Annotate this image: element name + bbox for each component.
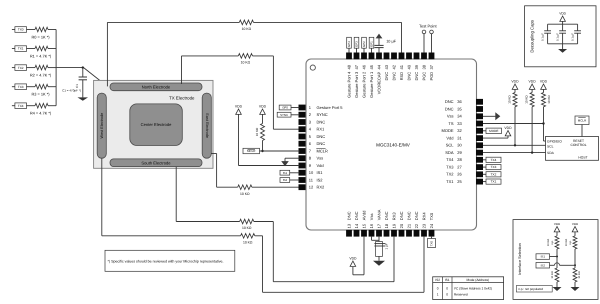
- pin 47 Gesture Port 3 (top): [354, 53, 360, 60]
- svg-text:IS1: IS1: [317, 170, 324, 175]
- svg-text:TX3: TX3: [446, 165, 454, 170]
- svg-text:38: 38: [421, 64, 426, 69]
- wire TS pin 33 to host GPIO: [483, 123, 544, 125]
- pin 13 DNC (bottom): [346, 230, 352, 237]
- resistor R1: [35, 46, 48, 51]
- pin 10 IS1 (left): [299, 170, 306, 176]
- svg-text:CONTROL: CONTROL: [570, 143, 586, 147]
- svg-text:RXD: RXD: [399, 72, 404, 81]
- svg-text:MODE: MODE: [442, 128, 454, 133]
- wire IS2 with hop over IS1 line: [550, 264, 555, 266]
- net flag IS2 (interface sel): [536, 263, 550, 269]
- wire RX1 pin4 to North Electrode: [273, 128, 299, 130]
- wire South Electrode to RX3 pin19: [175, 167, 177, 222]
- svg-text:18: 18: [384, 223, 389, 228]
- net flag TX0 pin 24: [431, 237, 433, 239]
- Vdd to AVdd pin 15: [363, 237, 365, 275]
- pin 44 VCORECAP (top): [376, 53, 382, 60]
- Vdd symbol decoupling: [560, 16, 566, 21]
- svg-text:28: 28: [457, 157, 462, 162]
- pin 33 TS (right): [476, 121, 483, 127]
- wire SCL pin 30 to host: [483, 144, 546, 146]
- svg-text:TX0: TX0: [18, 28, 24, 32]
- pullup n.p. 10K for IS2: [572, 227, 578, 232]
- TX2 net flag: [12, 67, 15, 69]
- pin 22 DNC (bottom): [414, 230, 420, 237]
- svg-text:47: 47: [354, 64, 359, 69]
- svg-text:VDD: VDD: [504, 126, 512, 130]
- svg-text:Vdd: Vdd: [446, 136, 453, 141]
- svg-text:DNC: DNC: [317, 141, 326, 146]
- svg-text:39: 39: [414, 64, 419, 69]
- ground VANA: [378, 256, 380, 260]
- West Electrode: [97, 93, 106, 158]
- net flag SYNC pin2: [291, 114, 300, 116]
- svg-text:43: 43: [384, 64, 389, 69]
- pin 1 marker circle: [310, 65, 315, 70]
- svg-text:34: 34: [457, 114, 462, 119]
- I2C mode table: [433, 277, 504, 300]
- pin 28 TX4 (right): [476, 157, 483, 163]
- svg-text:IS1: IS1: [283, 171, 288, 175]
- svg-text:VDD: VDD: [540, 79, 548, 83]
- svg-text:46: 46: [361, 64, 366, 69]
- net flag IS1 pin10: [290, 172, 300, 174]
- pin 5 DNC (left): [299, 134, 306, 140]
- svg-text:C1: C1: [75, 84, 79, 88]
- pin 12 RX2 (left): [299, 184, 306, 190]
- svg-text:IS1: IS1: [445, 278, 450, 282]
- gesture port flag GP3: [356, 48, 358, 52]
- IC U1 MGC3140-E/MV outline: [306, 59, 477, 230]
- svg-text:Center Electrode: Center Electrode: [141, 122, 172, 127]
- svg-text:14: 14: [354, 223, 359, 228]
- svg-text:44: 44: [376, 64, 381, 69]
- svg-text:RX2: RX2: [317, 185, 326, 190]
- svg-text:10 KΩ: 10 KΩ: [241, 61, 251, 65]
- svg-text:HOST: HOST: [578, 155, 587, 159]
- svg-text:C1 = 470pF *): C1 = 470pF *): [62, 89, 81, 93]
- svg-text:IS2: IS2: [435, 278, 440, 282]
- capacitor C1: [82, 68, 84, 77]
- pin 35 DNC (right): [476, 106, 483, 112]
- svg-text:41: 41: [399, 64, 404, 69]
- pin 11 IS2 (left): [299, 177, 306, 183]
- svg-text:10 KΩ: 10 KΩ: [565, 239, 568, 246]
- TX0 net flag: [12, 29, 15, 31]
- decoupling capacitor 0.1uF: [562, 24, 564, 31]
- svg-text:MGC3140-E/MV: MGC3140-E/MV: [376, 142, 411, 147]
- wire MCLR to reset control: [581, 125, 583, 137]
- svg-text:10 KΩ: 10 KΩ: [242, 27, 252, 31]
- svg-text:29: 29: [457, 150, 462, 155]
- svg-text:Vss: Vss: [369, 214, 374, 221]
- pin 3 DNC (left): [299, 119, 306, 125]
- svg-text:DNC: DNC: [445, 99, 454, 104]
- wire SDA pin 29 to host: [483, 152, 546, 154]
- svg-text:32: 32: [457, 128, 462, 133]
- pin 1 Gesture Port 5 (left): [299, 105, 306, 111]
- svg-text:10 KΩ: 10 KΩ: [547, 239, 550, 246]
- gesture port flag GP2: [363, 48, 365, 52]
- svg-text:MCLR: MCLR: [578, 118, 587, 122]
- svg-text:10 KΩ: 10 KΩ: [243, 240, 253, 244]
- ground IS1: [553, 287, 562, 291]
- net flag IS1 (interface sel): [536, 254, 550, 259]
- svg-text:DNC: DNC: [317, 134, 326, 139]
- South Electrode: [110, 159, 202, 167]
- svg-text:Gesture Port 1: Gesture Port 1: [369, 71, 374, 98]
- wire TX2 row to pad: [56, 67, 84, 69]
- Vdd symbol and 10K pullup for MCLR pin 7: [260, 109, 266, 114]
- svg-text:GPIO/EIO: GPIO/EIO: [547, 139, 562, 143]
- svg-text:20: 20: [399, 223, 404, 228]
- pin 27 TX3 (right): [476, 164, 483, 170]
- interface selection box: [513, 220, 598, 300]
- wire Vss pin 16: [371, 237, 373, 241]
- svg-text:TS: TS: [448, 121, 453, 126]
- pin 34 Vss (right): [476, 113, 483, 119]
- net flag IS2 pin11: [290, 179, 300, 181]
- Center Electrode: [130, 104, 183, 146]
- svg-text:MCLR: MCLR: [317, 148, 328, 153]
- decoupling rails: [548, 23, 578, 25]
- svg-text:10 KΩ: 10 KΩ: [242, 226, 252, 230]
- svg-text:DNC: DNC: [406, 72, 411, 81]
- wire TX1 to R1: [27, 48, 36, 50]
- decoupling capacitor 0.1uF: [577, 24, 579, 31]
- svg-text:DNC: DNC: [384, 211, 389, 220]
- svg-text:45: 45: [369, 64, 374, 69]
- svg-text:R4 = 4.7K *): R4 = 4.7K *): [30, 111, 52, 116]
- resistor 10K on RX3 wire: [240, 219, 254, 224]
- Vdd pullup resistor 10K: [529, 84, 535, 89]
- pin 45 Gesture Port 1 (top): [369, 53, 375, 60]
- svg-text:Test Point: Test Point: [419, 24, 437, 29]
- svg-text:1 µF: 1 µF: [384, 243, 388, 249]
- n.p. legend box: [516, 286, 552, 293]
- resistor 10K on RX1 wire: [238, 54, 252, 59]
- svg-text:TX2: TX2: [446, 172, 454, 177]
- svg-text:SCL: SCL: [446, 143, 455, 148]
- gesture port flag GP4: [348, 48, 350, 52]
- svg-text:36: 36: [457, 99, 462, 104]
- pin 38 PGC (top): [421, 53, 427, 60]
- svg-text:n.p.: n.p.: [569, 240, 572, 245]
- svg-text:17: 17: [376, 223, 381, 228]
- resistor 10K on RX2 wire: [238, 185, 252, 190]
- svg-text:26: 26: [457, 172, 462, 177]
- svg-text:Vss: Vss: [317, 156, 324, 161]
- capacitor 10uF on VCORECAP pin 44: [378, 48, 380, 53]
- svg-text:SDA: SDA: [547, 151, 555, 155]
- net flag MCLR left: [243, 148, 260, 153]
- junction IS2: [574, 264, 576, 266]
- svg-text:DNC: DNC: [399, 211, 404, 220]
- pin 7 MCLR (left): [299, 148, 306, 154]
- svg-text:SYNC: SYNC: [317, 112, 328, 117]
- pin 17 VANA (bottom): [376, 230, 382, 237]
- svg-text:TX1: TX1: [446, 179, 454, 184]
- svg-text:10 KΩ: 10 KΩ: [524, 95, 528, 104]
- Vss arrow pin 34: [483, 115, 496, 117]
- svg-text:IS2: IS2: [541, 263, 546, 267]
- svg-text:Interface Selection: Interface Selection: [518, 243, 522, 274]
- junction IS1: [556, 256, 558, 258]
- pin 2 SYNC (left): [299, 112, 306, 118]
- svg-text:TX2: TX2: [18, 66, 24, 70]
- net flag MODE pin 32: [483, 130, 486, 132]
- svg-text:33: 33: [457, 121, 462, 126]
- Vss arrow pin 8: [285, 157, 300, 159]
- pin 6 DNC (left): [299, 141, 306, 147]
- svg-text:Mode (Address): Mode (Address): [466, 278, 489, 282]
- wire TX2 to R2: [27, 67, 36, 69]
- svg-text:VDD: VDD: [572, 222, 579, 226]
- svg-text:VDD: VDD: [235, 104, 243, 108]
- pin 31 Vdd (right): [476, 135, 483, 141]
- wire TX0 to R0: [27, 29, 36, 31]
- ground for C1: [78, 97, 89, 100]
- resistor 10K on RX4 wire: [241, 234, 255, 239]
- TX1 net flag: [12, 48, 15, 50]
- svg-text:DNC: DNC: [414, 72, 419, 81]
- svg-text:Gesture Port 3: Gesture Port 3: [354, 71, 359, 98]
- pin 30 SCL (right): [476, 142, 483, 148]
- svg-text:10 KΩ: 10 KΩ: [551, 271, 554, 278]
- svg-text:48: 48: [346, 64, 351, 69]
- svg-text:22: 22: [414, 223, 419, 228]
- svg-text:IS2: IS2: [317, 177, 324, 182]
- svg-text:RX3: RX3: [391, 212, 396, 221]
- svg-text:R2 = 4.7K *): R2 = 4.7K *): [30, 73, 52, 78]
- pin 21 DNC (bottom): [406, 230, 412, 237]
- svg-text:GP3: GP3: [355, 41, 359, 47]
- svg-text:12: 12: [309, 185, 314, 190]
- svg-text:25: 25: [457, 179, 462, 184]
- svg-text:DNC: DNC: [384, 72, 389, 81]
- svg-text:GP1: GP1: [370, 41, 374, 47]
- capacitor 1uF on VANA pin 17: [378, 237, 380, 242]
- svg-text:10 KΩ: 10 KΩ: [547, 95, 551, 104]
- svg-text:10 KΩ: 10 KΩ: [578, 271, 581, 278]
- svg-text:TX0: TX0: [430, 241, 434, 247]
- pin 39 DNC (top): [414, 53, 420, 60]
- svg-text:TX1: TX1: [491, 180, 497, 184]
- svg-text:PGD: PGD: [429, 72, 434, 81]
- svg-text:DNC: DNC: [406, 211, 411, 220]
- svg-text:AVdd: AVdd: [361, 211, 366, 221]
- pin 23 RX4 (bottom): [421, 230, 427, 237]
- svg-text:VDD: VDD: [529, 79, 537, 83]
- svg-text:MODE: MODE: [489, 129, 498, 133]
- svg-text:0: 0: [446, 286, 448, 290]
- svg-text:40: 40: [406, 64, 411, 69]
- pin 32 MODE (right): [476, 128, 483, 134]
- pin 43 DNC (top): [384, 53, 390, 60]
- svg-text:R1 = 4.7K *): R1 = 4.7K *): [30, 54, 52, 59]
- TX3 net flag: [12, 86, 15, 88]
- junction C1 tap: [82, 66, 84, 68]
- pin 18 DNC (bottom): [384, 230, 390, 237]
- svg-text:I²C (Slave Address 1 0x42): I²C (Slave Address 1 0x42): [454, 286, 492, 290]
- junction MCLR pullup: [261, 150, 263, 152]
- svg-text:42: 42: [391, 64, 396, 69]
- decoupling capacitor 0.1uF: [547, 24, 549, 31]
- svg-text:13: 13: [346, 223, 351, 228]
- Vdd symbol for pin 9: [236, 109, 242, 114]
- svg-text:TX1: TX1: [18, 47, 24, 51]
- junction SDA pullup: [531, 151, 533, 153]
- svg-text:0.1 µF: 0.1 µF: [555, 33, 559, 41]
- svg-text:Vss: Vss: [447, 114, 454, 119]
- svg-text:East Electrode: East Electrode: [205, 113, 209, 138]
- svg-text:21: 21: [406, 223, 411, 228]
- svg-text:IS2: IS2: [283, 178, 288, 182]
- ground decoupling: [562, 44, 564, 49]
- svg-text:10 KΩ: 10 KΩ: [240, 192, 250, 196]
- wire diagonal TX to Center Electrode: [84, 68, 131, 105]
- svg-text:North Electrode: North Electrode: [142, 85, 171, 90]
- svg-text:16: 16: [369, 223, 374, 228]
- svg-text:TX2: TX2: [491, 173, 497, 177]
- svg-text:10 µF: 10 µF: [386, 40, 396, 44]
- svg-text:TX Electrode: TX Electrode: [169, 96, 195, 101]
- svg-text:TX4: TX4: [491, 158, 497, 162]
- TX bus wire: [55, 30, 57, 106]
- pin 19 RX3 (bottom): [391, 230, 397, 237]
- svg-text:27: 27: [457, 165, 462, 170]
- resistor R4: [35, 103, 48, 108]
- pin 16 Vss (bottom): [369, 230, 375, 237]
- svg-text:Gesture Port 2: Gesture Port 2: [361, 71, 366, 98]
- pin 40 DNC (top): [406, 53, 412, 60]
- svg-text:SDA: SDA: [445, 150, 454, 155]
- svg-text:DNC: DNC: [414, 211, 419, 220]
- svg-text:1: 1: [437, 293, 439, 297]
- svg-text:R3 = 1K *): R3 = 1K *): [31, 92, 50, 97]
- electrode pad outline: [94, 80, 213, 168]
- svg-text:30: 30: [457, 143, 462, 148]
- svg-text:10: 10: [309, 170, 314, 175]
- pin 42 DNC (top): [391, 53, 397, 60]
- wire TX3 to R3: [27, 86, 36, 88]
- svg-text:GP4: GP4: [347, 41, 351, 47]
- pin 24 TX0 (bottom): [429, 230, 435, 237]
- pin 48 Gesture Port 4 (top): [346, 53, 352, 60]
- resistor R0: [35, 27, 48, 32]
- svg-text:Vdd: Vdd: [317, 163, 324, 168]
- resistor R2: [35, 65, 48, 70]
- pin 41 RXD (top): [399, 53, 405, 60]
- pin 29 SDA (right): [476, 150, 483, 156]
- pin 20 DNC (bottom): [399, 230, 405, 237]
- svg-text:VDD: VDD: [259, 104, 267, 108]
- svg-text:TX4: TX4: [18, 104, 24, 108]
- junction SCL pullup: [514, 144, 516, 146]
- svg-text:TX4: TX4: [446, 157, 454, 162]
- svg-text:0: 0: [437, 286, 439, 290]
- wire TX4 to R4: [27, 105, 36, 107]
- pulldown 10K for IS1: [556, 257, 558, 269]
- svg-text:Gesture Port 4: Gesture Port 4: [346, 71, 351, 98]
- svg-text:R0 = 1K *): R0 = 1K *): [31, 35, 50, 40]
- svg-text:GP5: GP5: [282, 106, 288, 110]
- svg-text:TX3: TX3: [18, 85, 24, 89]
- pin 14 DNC (bottom): [354, 230, 360, 237]
- resistor R3: [35, 84, 48, 89]
- svg-text:*) Specific values should be r: *) Specific values should be reviewed wi…: [108, 259, 224, 263]
- svg-text:DNC: DNC: [346, 211, 351, 220]
- pin 25 TX1 (right): [476, 179, 483, 185]
- HOST box: [546, 137, 599, 161]
- East Electrode: [202, 93, 211, 158]
- svg-text:Gesture Port 5: Gesture Port 5: [317, 105, 344, 110]
- net flag MCLR right: [575, 116, 589, 125]
- svg-text:VDD: VDD: [559, 11, 566, 15]
- svg-text:19: 19: [391, 223, 396, 228]
- wire RXD pin41 to center electrode: [401, 22, 403, 52]
- wire West Electrode to RX4 pin23: [101, 158, 103, 236]
- pin 26 TX2 (right): [476, 171, 483, 177]
- note box: [105, 250, 235, 271]
- Vdd pullup resistor 10K: [541, 84, 547, 89]
- svg-text:RX1: RX1: [317, 127, 326, 132]
- pin 37 PGD (top): [429, 53, 435, 60]
- decoupling caps box: [525, 6, 596, 67]
- svg-text:35: 35: [457, 107, 462, 112]
- pin 4 RX1 (left): [299, 126, 306, 132]
- svg-text:SCL: SCL: [547, 145, 554, 149]
- svg-text:n.p.: not populated: n.p.: not populated: [518, 287, 543, 291]
- svg-text:VDD: VDD: [511, 79, 519, 83]
- Vdd pullup resistor 10K: [512, 84, 518, 89]
- svg-text:VDD: VDD: [554, 222, 561, 226]
- svg-text:31: 31: [457, 136, 462, 141]
- pullup n.p. 10K for IS1: [554, 227, 560, 232]
- svg-text:PGC: PGC: [421, 72, 426, 81]
- svg-text:Decoupling Caps: Decoupling Caps: [530, 20, 535, 53]
- resistor 10K on RXD wire: [239, 20, 253, 25]
- pulldown 10K for IS2: [574, 265, 576, 268]
- svg-text:10 KΩ: 10 KΩ: [507, 95, 511, 104]
- North Electrode: [110, 83, 202, 91]
- svg-text:West Electrode: West Electrode: [100, 113, 104, 139]
- wire East Electrode to RX2 pin12: [211, 153, 217, 155]
- svg-text:RX4: RX4: [421, 212, 426, 221]
- gesture port flag GP1: [371, 48, 373, 52]
- svg-text:0.1 µF: 0.1 µF: [570, 33, 574, 41]
- pin 9 Vdd (left): [299, 163, 306, 169]
- svg-text:DNC: DNC: [317, 119, 326, 124]
- svg-text:South Electrode: South Electrode: [141, 160, 171, 165]
- svg-text:IS1: IS1: [541, 255, 546, 259]
- net flag GP5 pin1: [291, 107, 300, 109]
- svg-text:24: 24: [429, 223, 434, 228]
- svg-text:TX0: TX0: [429, 212, 434, 220]
- net flags TX4 TX3 TX2 TX1 pins 28-25: [483, 159, 486, 161]
- svg-text:SYNC: SYNC: [280, 113, 288, 117]
- svg-text:15: 15: [361, 223, 366, 228]
- svg-text:23: 23: [421, 223, 426, 228]
- Vdd symbol pin 31: [505, 131, 511, 136]
- svg-text:VDD: VDD: [349, 256, 357, 260]
- junction TS pullup: [542, 122, 544, 124]
- ground IS2: [571, 287, 580, 291]
- svg-text:GP2: GP2: [362, 41, 366, 47]
- svg-text:37: 37: [429, 64, 434, 69]
- pin 8 Vss (left): [299, 155, 306, 161]
